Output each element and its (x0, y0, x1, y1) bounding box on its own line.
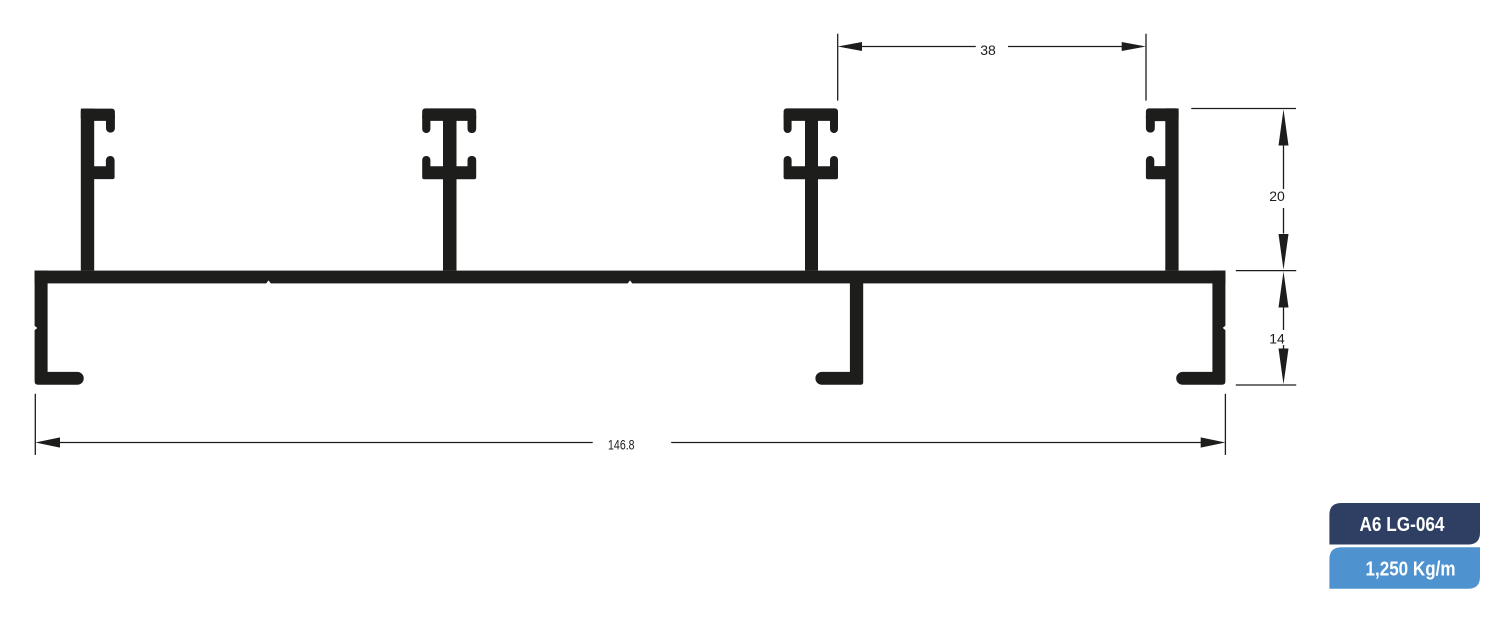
left wall and foot (35, 271, 84, 385)
arrow 146.8 left (35, 437, 60, 447)
post P3 top cap (784, 108, 838, 121)
dim line 14 lower segment (1283, 345, 1285, 349)
post P3 left hook (784, 112, 792, 133)
post P4 top arm (1146, 108, 1179, 121)
svg-text:14: 14 (1269, 330, 1285, 346)
post P3 mid right hook (830, 156, 838, 171)
post P3 bar (805, 110, 818, 271)
svg-text:38: 38 (980, 42, 996, 58)
ext line top of dim 20 (1191, 108, 1296, 110)
ext line left of dim 38 (837, 34, 839, 101)
notch base bottom 1 (266, 280, 272, 284)
arrow 38 left (838, 42, 862, 51)
post P2 left hook (422, 112, 430, 133)
notch left wall (34, 325, 37, 331)
ext line mid (shared 20/14) (1236, 270, 1296, 272)
arrow 20 up (1279, 109, 1289, 145)
dim line 20 upper segment (1283, 145, 1285, 189)
post P1 bar (81, 109, 94, 271)
svg-text:146.8: 146.8 (608, 437, 635, 452)
post P1 top arm (81, 109, 115, 121)
post P2 right hook (468, 112, 477, 133)
ext line bottom of dim 14 (1236, 384, 1296, 386)
post P2 top cap (422, 108, 476, 121)
notch right wall (1223, 325, 1226, 331)
ext line left of dim 146.8 (34, 394, 36, 455)
post P3 mid left hook (784, 156, 792, 171)
badge A6 LG-064 (1329, 503, 1480, 545)
dim line 20 lower segment (1283, 208, 1285, 234)
dim line 14 upper segment (1283, 308, 1285, 331)
post P2 mid bar (422, 166, 476, 179)
svg-text:1,250 Kg/m: 1,250 Kg/m (1366, 558, 1456, 580)
arrow 38 right (1122, 42, 1146, 51)
right wall and foot (1176, 271, 1225, 385)
arrow 14 down (1279, 349, 1289, 385)
arrow 146.8 right (1201, 437, 1226, 447)
badge 1,250 Kg/m (1329, 547, 1480, 588)
post P4 mid hook (1146, 156, 1154, 171)
post P2 mid right hook (468, 156, 477, 171)
post P1 mid hook (106, 156, 115, 171)
dim line 38 (861, 46, 976, 48)
ext line right of dim 146.8 (1224, 394, 1226, 455)
arrow 14 up (1279, 271, 1289, 307)
post P4 mid stub (1146, 166, 1172, 179)
post P1 top hook (106, 112, 115, 133)
arrow 20 down (1279, 234, 1289, 270)
ext line right of dim 38 (1145, 34, 1147, 101)
dimension 20 (1191, 109, 1296, 271)
post P3 right hook (830, 112, 838, 133)
dimension 38 (838, 34, 1146, 101)
post P4 bar (1165, 108, 1178, 270)
svg-text:A6 LG-064: A6 LG-064 (1360, 514, 1446, 536)
dimension 14 (1236, 308, 1296, 386)
post P4 top hook (1146, 112, 1155, 133)
notch base bottom 2 (627, 280, 633, 284)
post P2 bar (443, 110, 457, 271)
dim line 146.8 (59, 442, 593, 444)
middle leg and foot (815, 283, 863, 385)
post P2 mid left hook (422, 156, 430, 171)
post P3 mid bar (784, 166, 838, 179)
base plate (35, 271, 1226, 284)
dimension 146.8 (35, 394, 1225, 455)
post P1 mid stub (88, 166, 115, 179)
svg-text:20: 20 (1269, 188, 1285, 204)
